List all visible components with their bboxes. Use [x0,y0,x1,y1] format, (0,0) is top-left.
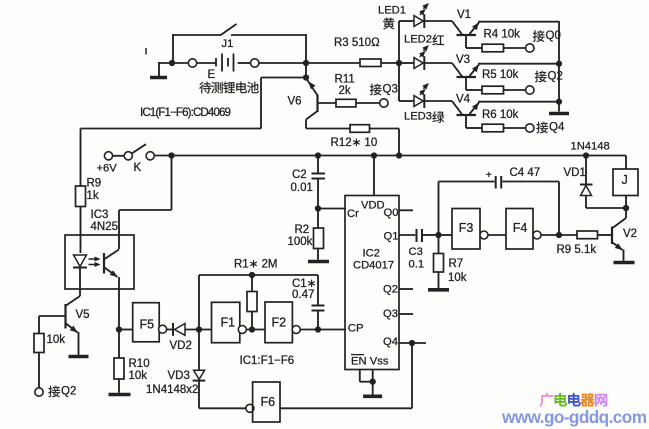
label jie Q0 [533,30,545,42]
node [583,152,589,158]
resistor R10 [114,358,124,379]
svg-text:CP: CP [348,323,364,335]
wire feedback vertical [198,275,200,330]
resistor R9 [76,186,86,207]
opto transistor emitter [105,268,118,278]
switch J1 top wire right segment [231,34,306,36]
svg-text:CD4017: CD4017 [353,260,394,272]
svg-text:Vss: Vss [370,355,389,367]
svg-text:V5: V5 [76,309,90,321]
wire [80,207,82,254]
svg-text:EN: EN [351,355,367,367]
wire [259,62,306,64]
transistor slant base lead [452,101,463,115]
svg-text:V4: V4 [456,93,471,105]
transistor base bar [457,76,477,78]
resistor R12 [350,125,370,133]
node [396,152,402,158]
wire [504,127,526,129]
wire [305,120,307,129]
svg-text:IC3: IC3 [91,209,109,221]
wire [370,128,400,130]
transistor V5 emitter [66,324,78,333]
wire [261,77,306,79]
wire feedback top [199,274,318,276]
wire [586,207,626,209]
capacitor C2 [317,156,319,173]
wire [79,295,81,297]
switch J1 blade [220,24,237,36]
ground rail [549,112,569,116]
stray mark [145,48,147,55]
wire C4 left vertical [438,182,440,236]
svg-text:K: K [134,162,142,174]
node LED bus [396,60,402,66]
svg-text:J: J [622,173,628,187]
svg-text:LED1: LED1 [378,5,406,17]
transistor slant base lead [452,21,463,35]
node [315,152,321,158]
ground Vss [363,394,382,398]
wire [238,62,251,64]
svg-text:F4: F4 [513,221,528,235]
terminal +6V [104,152,112,160]
wire [251,312,253,330]
transistor V2 collector [625,208,627,218]
wire emitter to rail [478,63,559,65]
terminal [526,124,534,132]
wire V6 base [318,102,336,104]
transistor V2 base bar [611,227,613,245]
diode VD1 [585,156,587,184]
svg-text:R11: R11 [335,73,355,85]
svg-text:R2: R2 [295,224,310,236]
wire [598,234,613,236]
svg-text:Q3: Q3 [383,83,398,95]
svg-text:C3: C3 [409,246,423,258]
svg-text:J1: J1 [222,38,234,50]
capacitor C1 [317,275,319,305]
wire [424,62,452,64]
transistor V2 emitter [613,243,623,251]
node [168,152,174,158]
svg-text:R7: R7 [449,258,464,270]
label yellow [383,18,394,30]
node battery positive [303,60,309,66]
resistor R3 [360,59,381,67]
wire J bottom [625,196,627,209]
wire [398,129,400,156]
wire [399,62,414,64]
opto transistor base bar [103,253,105,274]
svg-text:IC1:F1−F6: IC1:F1−F6 [240,355,295,367]
wire [306,128,350,130]
node [556,232,562,238]
svg-text:IC2: IC2 [363,247,380,259]
wire [466,127,482,129]
svg-text:C4 47: C4 47 [510,167,541,179]
switch K pole [146,152,154,160]
node [116,326,122,332]
svg-text:0.01: 0.01 [291,182,313,194]
LED symbol [414,96,423,107]
svg-text:R9 5.1k: R9 5.1k [557,244,597,256]
svg-text:Q4: Q4 [549,121,565,133]
terminal [526,86,534,94]
terminal jie Q3 [380,99,388,107]
wire [198,330,200,371]
wire optocoupler collector [118,210,120,249]
inverter F1 [212,302,240,342]
svg-text:www.go-gddq.com: www.go-gddq.com [501,407,647,427]
resistor [482,86,504,94]
pin Q0 stub [399,209,413,211]
inverter F3 [452,209,480,250]
wire [159,62,189,64]
wire [251,275,253,292]
svg-text:V3: V3 [456,54,470,66]
watermark site name [540,393,553,406]
wire [623,250,625,261]
wire [80,129,82,187]
wire [119,209,172,211]
wire [488,234,506,236]
resistor R2 [314,228,324,249]
wire [199,407,246,409]
LED symbol [414,58,423,69]
wire [172,34,174,63]
wire [399,100,414,102]
transistor slant base lead [452,63,463,77]
svg-text:F2: F2 [272,316,287,330]
transistor emitter [470,103,480,115]
wire K branch down [171,156,173,211]
wire [439,181,495,183]
inverter F5 [133,303,160,342]
wire [166,329,172,331]
transistor V5 collector [66,296,80,306]
svg-text:Q4: Q4 [383,336,398,348]
pin Q2 stub [399,288,413,290]
node [370,379,376,385]
svg-text:F5: F5 [140,318,155,332]
transistor collector [465,77,467,90]
svg-text:VD2: VD2 [170,340,192,352]
wire [78,332,80,355]
svg-text:10k: 10k [129,370,148,382]
node [249,326,255,332]
opto transistor collector [105,250,120,260]
ground R10 [109,393,131,397]
svg-text:VDD: VDD [361,199,385,211]
transistor V6 base bar [316,95,318,113]
diode VD2 [172,323,174,336]
wire [317,209,319,229]
svg-text:Q2: Q2 [383,284,398,296]
battery E cell J1 [215,58,217,67]
svg-text:Q2: Q2 [61,385,76,397]
svg-text:V6: V6 [288,95,302,107]
wire [81,128,262,130]
wire LED bus vertical [398,21,400,101]
ground R2 [308,260,329,264]
terminal jie Q2 bottom [35,388,43,396]
wire [246,329,265,331]
terminal battery right [251,59,259,67]
pin Q3 stub [399,313,413,315]
svg-text:Q0: Q0 [546,30,561,42]
wire [280,407,412,409]
transistor collector [465,115,467,128]
wire [260,78,262,129]
capacitor C4 [495,176,497,189]
svg-text:4N25: 4N25 [91,221,119,233]
resistor 10k V5 [34,334,44,353]
wire [466,89,482,91]
svg-text:R3 510Ω: R3 510Ω [334,37,380,49]
wire R7 top [438,235,440,254]
wire VDD pin [373,156,375,196]
wire [502,181,559,183]
svg-text:E: E [208,69,216,81]
label jie Q3 [370,84,382,96]
transistor emitter [470,23,480,35]
svg-text:1N4148: 1N4148 [571,141,610,153]
switch K pole [124,152,132,160]
wire [119,329,133,331]
transistor V6 collector [306,111,318,120]
node [623,205,629,211]
wire [399,20,414,22]
emitter ground rail [558,21,560,112]
inverter F6 [246,404,254,412]
wire [424,100,452,102]
pin Vss wire [372,370,374,382]
inverter F2 [265,302,292,343]
svg-text:1k: 1k [87,190,99,202]
inverter F4 [506,209,533,250]
transistor emitter [470,65,480,77]
svg-text:F3: F3 [459,221,474,235]
resistor [482,124,504,132]
wire [439,234,453,236]
resistor R1 [247,292,257,312]
pin Q1 wire [399,234,415,236]
svg-text:0.1: 0.1 [409,259,425,271]
opto light arrows [89,258,100,260]
svg-text:Q3: Q3 [383,308,398,320]
wire [360,381,373,383]
resistor R9b 5.1k [577,231,598,239]
svg-text:R12∗ 10: R12∗ 10 [331,137,378,149]
node [371,152,377,158]
wire [423,234,439,236]
ground battery [158,62,160,76]
wire [504,47,526,49]
wire [185,329,212,331]
svg-text:R4 10k: R4 10k [484,28,521,40]
svg-text:R5 10k: R5 10k [482,69,519,81]
wire V5 base [39,315,65,317]
wire emitter to rail [478,101,559,103]
svg-text:+6V: +6V [97,163,118,175]
transistor collector [465,35,467,48]
svg-text:V1: V1 [457,9,471,21]
ground V5 [69,355,89,359]
svg-text:10k: 10k [47,334,66,346]
node [249,272,255,278]
wire [38,353,40,388]
wire [504,89,526,91]
node battery left junction [169,60,175,66]
svg-text:R9: R9 [87,177,102,189]
pin Q4 wire [399,342,426,344]
wire [118,330,120,359]
ground R7 [428,288,449,292]
transistor base bar [457,114,477,116]
svg-text:R1∗ 2M: R1∗ 2M [234,258,278,270]
switch K blade [132,144,146,153]
svg-text:LED3: LED3 [404,111,432,123]
transistor V5 base bar [64,304,66,329]
wire [38,316,40,334]
svg-text:F6: F6 [261,395,276,409]
svg-text:F1: F1 [221,316,236,330]
diode VD3 [194,370,205,379]
node Q4 [409,340,415,346]
switch J1 top wire left segment [173,34,220,36]
capacitor C3 [416,229,418,242]
node [196,326,202,332]
wire [438,272,440,288]
wire R3 right [381,62,399,64]
terminal [526,44,534,52]
label 待测锂电池 [199,82,211,94]
wire J top [625,156,627,170]
wire [305,34,307,63]
svg-text:+: + [486,169,492,181]
LED symbol [414,16,423,27]
svg-text:0.47: 0.47 [292,289,314,301]
svg-text:100k: 100k [288,236,313,248]
relay J box [613,169,638,196]
svg-text:2k: 2k [339,85,351,97]
wire [411,343,413,408]
wire [372,382,374,395]
node V6 emitter junction [303,74,309,80]
svg-text:IC1(F1−F6):CD4069: IC1(F1−F6):CD4069 [140,106,231,119]
svg-text:LED2: LED2 [404,34,432,46]
ground V2 [614,261,635,265]
optocoupler box [65,235,134,289]
wire [113,155,125,157]
pin EN wire [359,370,361,382]
transistor base bar [457,34,477,36]
label jie Q2 [48,386,60,398]
svg-text:Q1: Q1 [384,230,399,242]
node [435,232,441,238]
wire [424,20,452,22]
transistor V6 emitter [306,78,318,96]
label jie Q4 [536,122,548,134]
svg-text:10k: 10k [448,272,467,284]
wire emitter to rail [478,21,559,23]
wire C4 right vertical [558,182,560,236]
wire +6V rail [154,155,626,157]
svg-text:VD3: VD3 [168,370,190,382]
wire R3 left [306,62,360,64]
wire [118,379,120,393]
wire [300,329,346,331]
node [315,205,321,211]
wire [305,63,307,78]
svg-text:Q2: Q2 [548,70,563,82]
resistor R11 [336,99,356,107]
wire [198,381,200,409]
wire [466,47,482,49]
resistor [482,44,504,52]
wire [541,234,577,236]
svg-text:R10: R10 [129,358,150,370]
label jie Q2 [535,71,547,83]
wire [197,62,216,64]
wire opto emitter [118,277,120,330]
terminal battery left [188,59,196,67]
svg-text:V2: V2 [623,228,637,240]
svg-text:Q0: Q0 [384,207,399,219]
svg-text:Cr: Cr [347,208,359,220]
IC U2 CD4017 box [345,196,399,370]
svg-text:1N4148x2: 1N4148x2 [146,384,198,396]
resistor R7 [434,254,444,273]
node [315,326,321,332]
svg-text:VD1: VD1 [564,167,586,179]
opto LED [74,255,87,267]
wire Cr [318,208,346,210]
wire [317,249,319,260]
svg-text:C2: C2 [292,169,307,181]
wire [356,102,380,104]
svg-text:R6 10k: R6 10k [482,109,519,121]
